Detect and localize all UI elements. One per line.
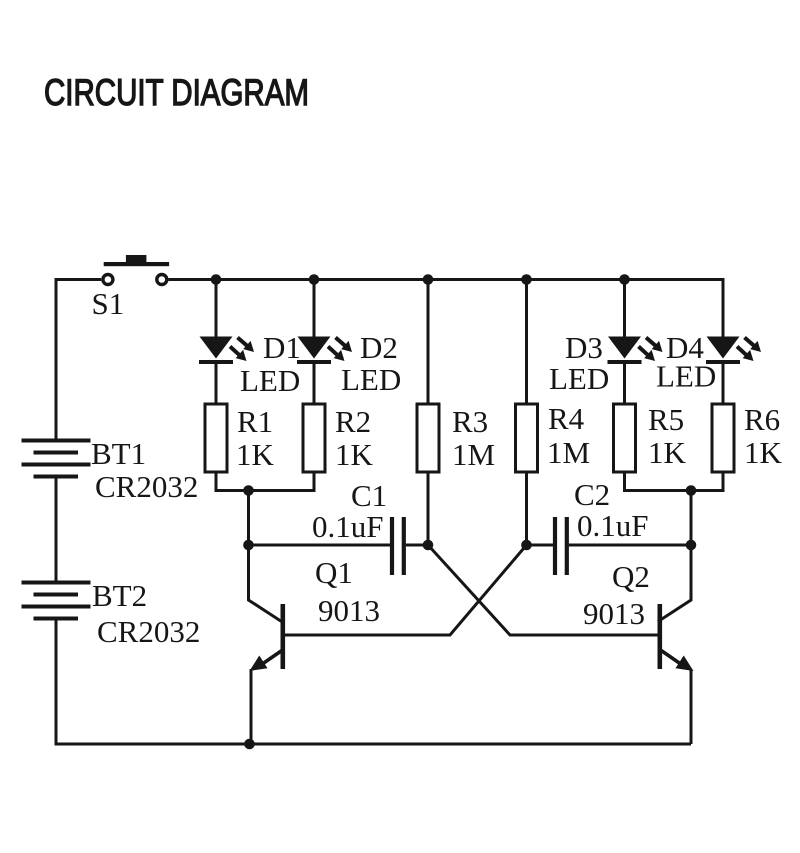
svg-text:Q2: Q2 — [612, 559, 650, 594]
wire cross coupling to Q1 base — [285, 545, 527, 635]
wire R5-R6 bottom U — [625, 472, 724, 491]
resistor R6 — [712, 404, 734, 472]
wire D4 to R6 — [722, 363, 725, 404]
svg-text:CIRCUIT DIAGRAM: CIRCUIT DIAGRAM — [44, 72, 309, 113]
battery BT1 — [22, 439, 91, 479]
svg-text:0.1uF: 0.1uF — [577, 508, 649, 543]
wire R3 bottom — [427, 472, 430, 545]
resistor R2 — [303, 404, 325, 472]
svg-text:1K: 1K — [236, 437, 275, 472]
svg-text:1K: 1K — [744, 435, 783, 470]
wire C1 left lead — [249, 544, 391, 547]
wire bottom rail — [55, 743, 692, 746]
wire R3 top — [427, 280, 430, 405]
LED D3 — [608, 337, 663, 365]
wire left of switch — [56, 278, 101, 281]
wire R4 top — [525, 280, 528, 405]
svg-text:D3: D3 — [565, 330, 603, 365]
svg-text:LED: LED — [341, 362, 401, 397]
node dot R5R6 junction — [686, 485, 697, 496]
wire top rail with right corner down to D4 — [169, 280, 724, 338]
svg-text:CR2032: CR2032 — [97, 614, 200, 649]
node dot bottom rail Q1 emitter — [244, 739, 255, 750]
svg-text:R6: R6 — [744, 402, 780, 437]
svg-text:1K: 1K — [648, 435, 687, 470]
battery BT2 — [22, 581, 91, 621]
node dot C2 right / Q2 collector — [686, 540, 697, 551]
node dot R4 top — [521, 274, 532, 285]
svg-text:9013: 9013 — [318, 593, 380, 628]
wire Q1 collector column — [249, 491, 282, 622]
wire D2 to R2 — [313, 363, 316, 404]
svg-text:D1: D1 — [263, 330, 301, 365]
wire D3 to R5 — [623, 363, 626, 404]
transistor Q2 — [658, 604, 694, 744]
resistor R4 — [516, 404, 538, 472]
wire D2 top — [313, 280, 316, 338]
svg-text:BT2: BT2 — [92, 578, 147, 613]
wire C2 left lead — [527, 544, 554, 547]
wire left rail lower — [55, 621, 58, 745]
wire D1 to R1 — [215, 363, 218, 404]
wire C1 right lead — [406, 544, 428, 547]
svg-text:C2: C2 — [574, 477, 610, 512]
svg-text:LED: LED — [240, 363, 300, 398]
LED D4 — [706, 337, 761, 365]
wire left rail upper — [55, 278, 58, 440]
wire cross coupling to Q2 base — [428, 545, 658, 635]
svg-text:R3: R3 — [452, 404, 488, 439]
svg-text:R4: R4 — [548, 401, 585, 436]
svg-text:R5: R5 — [648, 402, 684, 437]
node dot C1 left — [243, 540, 254, 551]
wire C2 right lead — [569, 544, 691, 547]
svg-text:R1: R1 — [237, 404, 273, 439]
LED D2 — [297, 337, 352, 365]
wire R4 bottom — [525, 472, 528, 545]
node dot R1R2 junction — [243, 485, 254, 496]
wire Q2 collector column — [658, 491, 691, 622]
node dot D3 top — [619, 274, 630, 285]
svg-text:1K: 1K — [335, 437, 374, 472]
svg-text:BT1: BT1 — [91, 436, 146, 471]
svg-text:CR2032: CR2032 — [95, 469, 198, 504]
node dot C1 right / R3 bottom — [423, 540, 434, 551]
svg-text:9013: 9013 — [583, 596, 645, 631]
node dot D2 top — [309, 274, 320, 285]
svg-text:0.1uF: 0.1uF — [312, 509, 384, 544]
node dot C2 left / R4 bottom — [521, 540, 532, 551]
resistor R1 — [205, 404, 227, 472]
wire between batteries — [55, 479, 58, 581]
svg-text:1M: 1M — [547, 435, 590, 470]
wire D1 top — [215, 280, 218, 338]
capacitor C2 — [555, 517, 567, 575]
switch S1 — [103, 255, 169, 285]
svg-text:LED: LED — [549, 361, 609, 396]
svg-text:D2: D2 — [360, 330, 398, 365]
wire R1-R2 bottom U — [216, 472, 314, 491]
LED D1 — [199, 337, 254, 365]
svg-text:S1: S1 — [92, 286, 125, 321]
transistor Q1 — [250, 604, 286, 744]
svg-text:LED: LED — [656, 359, 716, 394]
wire D3 top — [623, 280, 626, 338]
svg-text:1M: 1M — [452, 437, 495, 472]
node dot R3 top — [423, 274, 434, 285]
resistor R5 — [614, 404, 636, 472]
svg-text:R2: R2 — [335, 404, 371, 439]
svg-text:C1: C1 — [351, 478, 387, 513]
resistor R3 — [417, 404, 439, 472]
capacitor C1 — [392, 517, 404, 575]
svg-text:Q1: Q1 — [315, 555, 353, 590]
node dot D1 top — [211, 274, 222, 285]
